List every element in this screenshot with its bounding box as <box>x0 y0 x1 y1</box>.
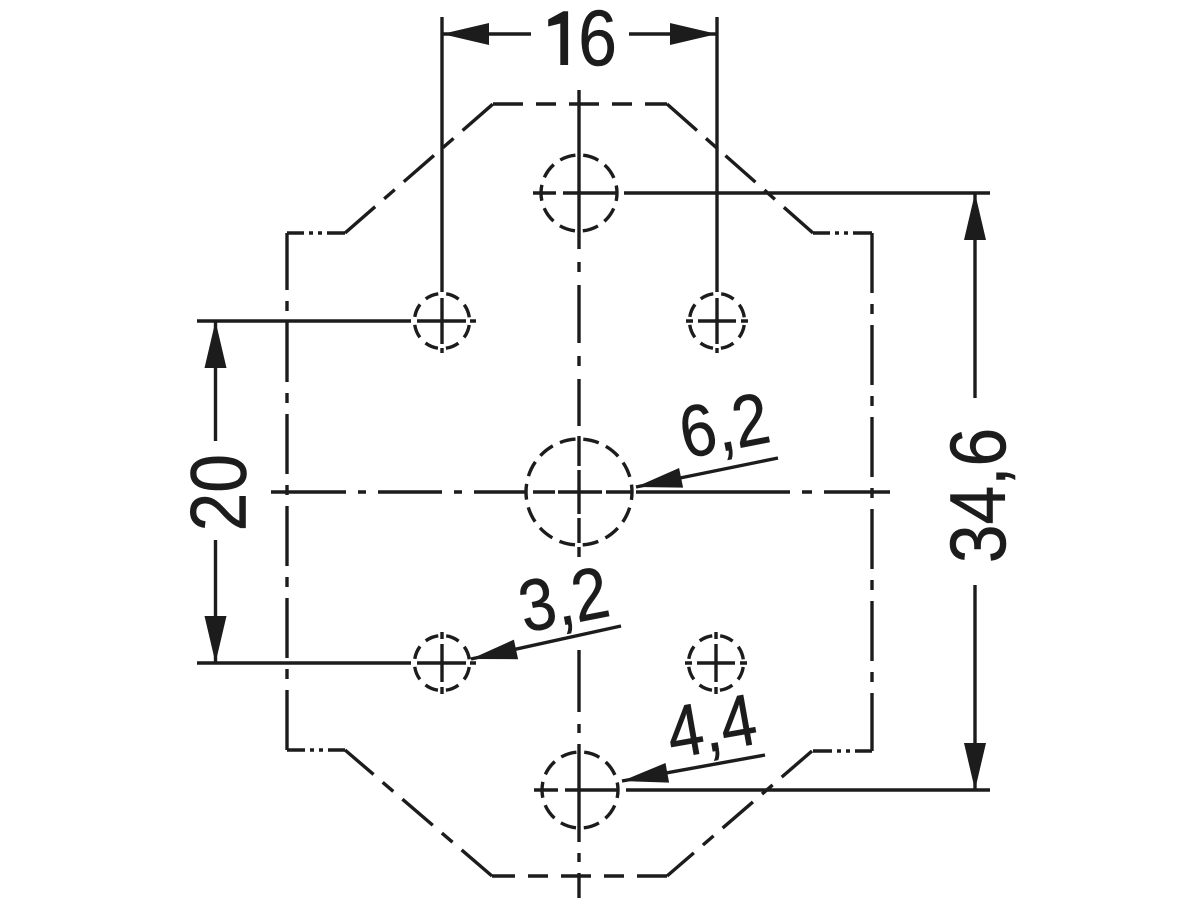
svg-text:4,4: 4,4 <box>660 678 762 774</box>
plate outline left bottom shoulder <box>287 748 345 751</box>
dimension line 34,6 <box>973 193 976 790</box>
arrowhead leader 3,2 <box>471 640 518 660</box>
hole upper-right (d3.2) dashed circle <box>690 294 745 349</box>
extension line left of 16-dim (through upper-left hole) <box>440 17 443 353</box>
hole top (d4.4) dashed circle <box>541 155 617 231</box>
plate outline lower-right diagonal <box>667 751 812 876</box>
svg-text:3,2: 3,2 <box>512 551 615 648</box>
leader line 4,4 <box>622 755 765 781</box>
hole bottom (d4.4) dashed circle <box>542 752 618 828</box>
svg-text:6: 6 <box>578 0 617 82</box>
plate outline upper-right diagonal <box>667 104 813 233</box>
svg-text:34,6: 34,6 <box>934 428 1022 563</box>
extension line top of 34,6-dim (through top hole) <box>533 191 990 194</box>
arrowhead 20 up <box>205 321 227 368</box>
plate outline upper-left diagonal <box>345 104 493 233</box>
extension line right of 16-dim (through upper-right hole) <box>715 17 718 353</box>
arrowhead leader 4,4 <box>622 763 669 783</box>
extension line top of 20-dim (through upper-left hole) <box>197 319 476 322</box>
plate outline left edge <box>285 233 288 750</box>
hole lower-left (d3.2) dashed circle <box>415 636 470 691</box>
crosshair upper-right hole horizontal <box>686 319 748 322</box>
extension line bottom of 20-dim (through lower-left hole) <box>197 661 476 664</box>
arrowhead 20 down <box>205 616 227 663</box>
arrowhead 34,6 up <box>964 193 986 240</box>
crosshair lower-right hole vertical <box>714 632 717 694</box>
plate outline left top shoulder <box>287 231 345 234</box>
plate outline lower-left diagonal <box>345 750 492 876</box>
crosshair lower-right hole horizontal <box>685 661 747 664</box>
hole lower-right (d3.2) dashed circle <box>689 636 744 691</box>
arrowhead 34,6 down <box>964 743 986 790</box>
dimension text 16: digit 1 drawn as polygon (no foot serif) <box>548 11 568 65</box>
svg-text:6,2: 6,2 <box>673 377 776 474</box>
crosshair lower-left hole vertical <box>440 632 443 694</box>
plate outline top edge <box>493 102 667 105</box>
plate outline bottom edge <box>492 874 667 877</box>
extension line bottom of 34,6-dim (through bottom hole) <box>534 788 990 791</box>
main horizontal centerline <box>271 490 890 493</box>
arrowhead leader 6,2 <box>636 468 683 488</box>
plate outline right bottom shoulder <box>813 749 872 752</box>
arrowhead 16 left <box>442 23 489 45</box>
hole center (d6.2) dashed circle <box>526 439 632 545</box>
plate outline right edge <box>870 233 873 751</box>
main vertical centerline <box>577 90 580 898</box>
arrowhead 16 right <box>670 23 717 45</box>
hole upper-left (d3.2) dashed circle <box>415 294 470 349</box>
plate outline right top shoulder <box>813 231 872 234</box>
svg-text:20: 20 <box>174 454 262 531</box>
dimension line 16 <box>442 32 717 35</box>
leader line 3,2 <box>471 626 621 659</box>
leader line 6,2 <box>636 458 778 487</box>
dimension line 20 <box>214 321 217 663</box>
